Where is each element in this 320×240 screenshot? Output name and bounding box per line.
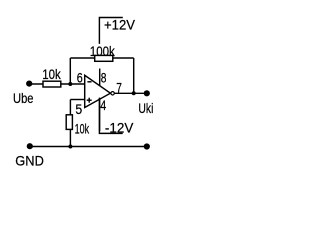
node Uki terminal [144, 90, 150, 96]
wire feedback left vertical [69, 58, 71, 84]
wire input Ube to pin 6 [29, 83, 85, 85]
resistor R3 10k vertical [66, 115, 72, 130]
svg-text:5: 5 [75, 101, 82, 117]
output bubble [111, 92, 114, 95]
pin 8 stub [99, 69, 101, 87]
svg-text:10k: 10k [75, 121, 90, 137]
svg-text:4: 4 [100, 97, 106, 113]
wire pin5 node down to R3 [69, 100, 71, 147]
node junction A (inverting input node) [68, 82, 72, 86]
svg-text:Uki: Uki [138, 100, 153, 116]
svg-text:+12V: +12V [104, 16, 136, 32]
pin 4 stub [99, 98, 101, 131]
svg-text:-12V: -12V [105, 119, 134, 135]
svg-text:10k: 10k [42, 66, 61, 82]
op-amp plus sign [87, 99, 92, 101]
svg-text:8: 8 [101, 70, 107, 86]
svg-text:GND: GND [15, 152, 44, 168]
node GND terminal right [144, 143, 150, 149]
node GND terminal left [27, 143, 33, 149]
wire output to Uki [115, 92, 147, 94]
op-amp minus sign [87, 81, 91, 83]
svg-text:Ube: Ube [13, 90, 34, 106]
supply -12V bracket [99, 98, 122, 134]
wire GND rail [30, 146, 147, 148]
resistor R1 10k horizontal [43, 81, 61, 87]
svg-text:100k: 100k [90, 43, 116, 59]
node output junction [132, 91, 136, 95]
op-amp U1 triangle [85, 75, 111, 107]
node GND junction [68, 145, 72, 149]
supply +12V bracket [99, 18, 122, 44]
wire feedback top horizontal [70, 57, 133, 59]
svg-text:6: 6 [77, 69, 83, 85]
node Ube terminal [26, 81, 32, 87]
wire pin 5 [70, 99, 84, 101]
wire feedback right vertical [133, 58, 135, 93]
resistor R2 100k [95, 55, 113, 61]
